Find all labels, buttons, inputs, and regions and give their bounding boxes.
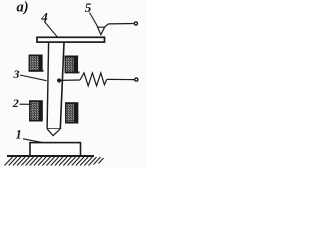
svg-text:2: 2	[12, 96, 19, 110]
base block 1	[30, 143, 81, 156]
lower-right block	[66, 103, 79, 123]
leader line 3	[20, 75, 47, 81]
svg-text:5: 5	[85, 0, 92, 15]
leader line 2	[20, 103, 32, 105]
lower terminal	[135, 78, 138, 81]
svg-text:3: 3	[13, 67, 20, 81]
junction dot on rod wall	[57, 78, 61, 82]
ground line	[7, 155, 94, 157]
leader line 1	[23, 139, 44, 143]
wire from resistor to lower terminal	[107, 78, 134, 80]
svg-text:а): а)	[17, 0, 29, 15]
top plate 4	[37, 37, 105, 42]
leader line 5	[90, 13, 99, 28]
resistor zigzag	[80, 73, 107, 86]
svg-text:1: 1	[16, 128, 22, 142]
leader line 4	[44, 22, 57, 38]
ground hatching	[5, 157, 104, 166]
rod right wall	[60, 43, 64, 129]
wiper contact 5 (triangle)	[98, 27, 105, 34]
upper-left block 2	[29, 55, 44, 71]
top terminal	[134, 22, 137, 25]
wire from rod to resistor	[59, 79, 80, 81]
rod tip (cone)	[47, 129, 60, 136]
rod left wall	[47, 43, 49, 129]
lower-left block 2	[29, 101, 42, 121]
upper-right block	[65, 56, 79, 72]
rod bottom shoulder	[47, 128, 61, 130]
wire from wiper to top terminal	[105, 24, 134, 28]
